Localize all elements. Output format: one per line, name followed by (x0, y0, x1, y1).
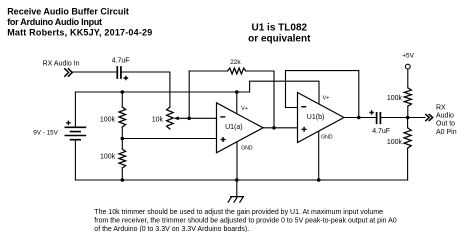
svg-text:U1(b): U1(b) (307, 114, 325, 121)
svg-text:10k: 10k (152, 116, 164, 123)
capacitor input plus mark (124, 76, 129, 81)
svg-text:V+: V+ (241, 106, 248, 112)
svg-text:4.7uF: 4.7uF (112, 58, 130, 65)
input port chevron (64, 68, 72, 76)
battery plus mark (66, 121, 71, 126)
wire +5V to upper pullup resistor (407, 69, 409, 88)
svg-text:A0 Pin: A0 Pin (436, 129, 457, 136)
U1(a) plus symbol (221, 137, 226, 142)
svg-text:RX: RX (436, 105, 446, 112)
junction dot U1(a) V+ branch (235, 90, 239, 94)
junction dot divider top (121, 90, 125, 94)
svg-text:100k: 100k (100, 154, 116, 161)
svg-text:U1 is TL082: U1 is TL082 (252, 22, 308, 33)
resistor R 22k (228, 68, 247, 74)
resistor R 100k pulldown (404, 128, 411, 149)
svg-text:100k: 100k (387, 95, 403, 102)
wire wiper to U1(a) minus input (177, 117, 217, 119)
wire pulldown to bottom rail (407, 148, 409, 180)
wire V+ rail (75, 81, 319, 104)
wire 22k feedback left horizontal (189, 70, 227, 72)
resistor R 100k pullup (404, 88, 411, 106)
svg-text:U1(a): U1(a) (225, 124, 243, 131)
+5V terminal circle (405, 64, 410, 69)
wire divider bottom lead (121, 168, 123, 180)
junction dot mid rail (121, 137, 125, 141)
wire output node to lower resistor (407, 118, 409, 128)
wire 22k feedback right to U1(a) output (246, 71, 274, 128)
svg-text:RX Audio In: RX Audio In (43, 60, 80, 67)
svg-text:V+: V+ (323, 96, 330, 102)
svg-text:22k: 22k (230, 59, 241, 66)
wire U1(a) output to U1(b) plus input (263, 127, 298, 129)
svg-text:GND: GND (321, 135, 333, 141)
battery B1 plates (65, 127, 85, 139)
junction dot divider bottom (121, 178, 125, 182)
wire mid bias rail to U1(a) plus input (122, 138, 216, 140)
wire 22k feedback left vertical (188, 71, 190, 118)
svg-text:The 10k trimmer should be used: The 10k trimmer should be used to adjust… (94, 209, 383, 216)
svg-text:100k: 100k (387, 139, 403, 146)
U1(a) minus symbol (220, 116, 225, 118)
svg-text:100k: 100k (100, 116, 116, 123)
junction dot output node (406, 116, 410, 120)
svg-text:Matt Roberts, KK5JY, 2017-04-2: Matt Roberts, KK5JY, 2017-04-29 (7, 28, 152, 38)
capacitor C 4.7uF input plates (117, 67, 121, 78)
capacitor C 4.7uF output plates (377, 113, 381, 123)
svg-text:from the receiver, the trimmer: from the receiver, the trimmer should be… (94, 217, 396, 224)
ground symbol stem (236, 180, 238, 197)
U1(b) plus symbol (302, 127, 307, 132)
wire U1(a) V+ pin (236, 92, 238, 114)
junction dot wiper node (187, 117, 191, 121)
junction dot U1(a) output (272, 126, 276, 130)
svg-text:+5V: +5V (402, 53, 414, 60)
junction dot ground node (235, 178, 239, 182)
op-amp U1(a) triangle (217, 103, 264, 153)
U1(b) minus symbol (301, 106, 306, 108)
capacitor output plus mark (369, 110, 373, 114)
wire battery minus to bottom rail (74, 140, 76, 180)
svg-text:for Arduino Audio Input: for Arduino Audio Input (7, 17, 102, 27)
wire bottom ground rail (75, 179, 407, 181)
wire U1(b) output to output capacitor (344, 117, 376, 119)
wire output capacitor to A0 node (381, 117, 425, 119)
wire input from RX Audio In to capacitor (72, 71, 116, 73)
svg-text:GND: GND (241, 145, 253, 151)
wire battery plus to V+ rail (74, 92, 76, 127)
trimmer wiper arrowhead (174, 116, 179, 120)
svg-text:Audio: Audio (436, 113, 454, 120)
trimmer R 10k zigzag (167, 107, 174, 129)
wire U1(a) GND pin to rail (236, 142, 238, 180)
resistor R 100k lower divider (119, 149, 126, 168)
wire divider top lead (121, 92, 123, 107)
ground symbol bars (228, 197, 243, 203)
svg-text:4.7uF: 4.7uF (372, 128, 390, 135)
wire U1(b) feedback loop output to minus input (286, 71, 359, 118)
resistor R 100k upper divider (119, 107, 126, 127)
wire divider middle (121, 127, 123, 149)
wire capacitor to trimmer top (122, 72, 170, 107)
op-amp U1(b) triangle (298, 93, 345, 143)
svg-text:9V - 15V: 9V - 15V (33, 130, 58, 137)
junction dot U1(b) output (357, 116, 361, 120)
svg-text:or equivalent: or equivalent (248, 34, 311, 45)
svg-text:of the Arduino (0 to 3.3V on 3: of the Arduino (0 to 3.3V on 3.3V Arduin… (94, 226, 249, 232)
svg-text:Receive Audio Buffer Circuit: Receive Audio Buffer Circuit (7, 6, 129, 16)
junction dot U1(b) ground (317, 178, 321, 182)
wire pullup to output node (407, 106, 409, 117)
wire U1(b) GND pin to rail (318, 131, 320, 180)
output port chevron (425, 114, 433, 121)
svg-text:Out to: Out to (436, 121, 455, 128)
